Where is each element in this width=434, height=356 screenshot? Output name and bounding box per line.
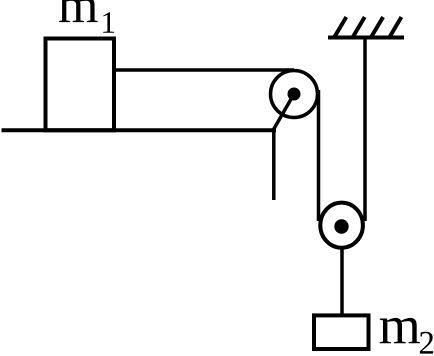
pulley P1 wheel: [271, 71, 318, 118]
pulley P2 axle dot: [334, 219, 348, 233]
block m2: [314, 315, 369, 349]
pulley P2 wheel: [320, 203, 363, 248]
wire: vertical rope from pulley 1 down to pulley 2: [317, 90, 321, 221]
wire: rope from ceiling down to pulley 2: [363, 38, 367, 222]
bracket vertical support: [272, 128, 276, 200]
table surface line: [2, 128, 277, 132]
ceiling line: [328, 36, 404, 40]
wire: horizontal rope from m1 to pulley 1: [112, 68, 294, 72]
label m2: letter m: [380, 318, 420, 343]
pulley P1 axle dot: [288, 88, 301, 101]
label m1: letter m: [59, 0, 98, 22]
label m1: subscript 1: [103, 12, 114, 32]
label m2: subscript 2: [420, 332, 433, 354]
block m1: [46, 39, 115, 131]
wire: hanging link from pulley 2 to block m2: [340, 247, 344, 317]
ceiling hatch marks: [334, 17, 401, 37]
pulley bracket diagonal arm: [274, 94, 295, 130]
